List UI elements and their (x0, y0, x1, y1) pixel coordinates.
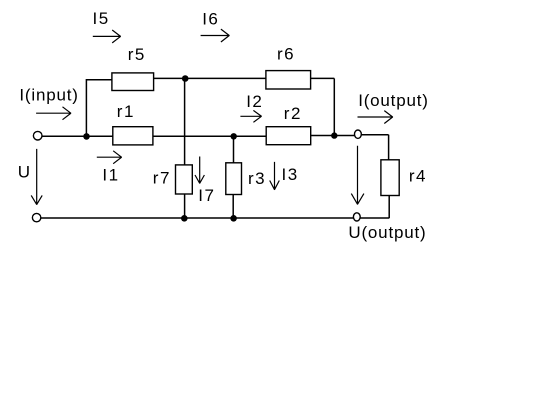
svg-text:I6: I6 (202, 9, 219, 28)
svg-text:I1: I1 (102, 165, 119, 184)
svg-text:I3: I3 (282, 165, 299, 184)
svg-text:r3: r3 (248, 169, 266, 188)
svg-text:r6: r6 (277, 44, 295, 63)
svg-text:r5: r5 (128, 45, 146, 64)
svg-text:I2: I2 (246, 92, 263, 111)
svg-text:r7: r7 (153, 168, 171, 187)
svg-text:r1: r1 (117, 102, 135, 121)
svg-text:r2: r2 (284, 104, 302, 123)
svg-text:I7: I7 (198, 186, 215, 205)
svg-text:I(output): I(output) (358, 91, 429, 110)
svg-text:r4: r4 (409, 167, 427, 186)
svg-text:I5: I5 (93, 9, 110, 28)
svg-text:U(output): U(output) (348, 223, 426, 242)
svg-text:I(input): I(input) (19, 86, 78, 105)
svg-text:U: U (18, 163, 31, 182)
